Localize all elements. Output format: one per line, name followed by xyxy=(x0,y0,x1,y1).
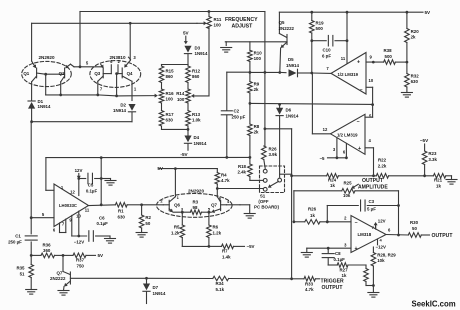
resistor R27 xyxy=(328,263,366,279)
resistor R35 xyxy=(16,255,33,289)
node trigger top junction xyxy=(264,127,292,130)
svg-text:100: 100 xyxy=(214,23,222,28)
svg-text:4: 4 xyxy=(369,138,372,143)
svg-text:R13: R13 xyxy=(192,112,201,117)
potentiometer R11 FREQUENCY ADJUST xyxy=(207,12,258,30)
potentiometer R25 xyxy=(294,181,399,198)
svg-text:+: + xyxy=(357,60,360,66)
node R9-R8 junction xyxy=(249,102,252,105)
svg-text:R12: R12 xyxy=(192,69,201,74)
svg-text:51: 51 xyxy=(20,271,25,276)
switch S1 xyxy=(254,166,284,209)
svg-text:3.3k: 3.3k xyxy=(428,157,437,162)
wire Q2 emitter down xyxy=(60,82,62,95)
transistor Q5 xyxy=(279,12,295,72)
capacitor C2 xyxy=(221,72,250,157)
resistor R26 (1k) input xyxy=(294,207,351,225)
svg-text:C5: C5 xyxy=(88,183,94,188)
svg-text:6 pF: 6 pF xyxy=(322,53,331,58)
svg-text:−12V: −12V xyxy=(74,239,84,244)
ground for U3 pin3 xyxy=(301,248,312,257)
ground for R2 xyxy=(136,233,147,238)
transistor Q2 xyxy=(46,64,71,82)
ground for C5 xyxy=(105,179,116,186)
resistor R33 xyxy=(292,277,320,293)
svg-text:OUTPUT: OUTPUT xyxy=(322,285,344,291)
svg-text:C3: C3 xyxy=(369,199,375,204)
wire R25 to pin2 node xyxy=(293,191,296,223)
svg-text:R34: R34 xyxy=(216,281,225,286)
svg-text:7: 7 xyxy=(62,221,65,226)
svg-text:R23: R23 xyxy=(428,151,437,156)
buffer U4 LH0033C xyxy=(42,184,90,233)
wire LH0033C top feedback xyxy=(46,158,54,191)
svg-text:3: 3 xyxy=(181,206,184,211)
comparator U1 1/2 LM319 xyxy=(326,53,374,95)
diode D1 xyxy=(28,82,51,122)
transistor Q7 xyxy=(50,255,147,290)
power 12V for U4 xyxy=(75,168,83,196)
svg-text:Q6: Q6 xyxy=(174,203,180,208)
svg-text:−: − xyxy=(359,88,362,94)
svg-text:98: 98 xyxy=(193,205,198,210)
svg-text:6: 6 xyxy=(219,195,222,200)
resistor R5 xyxy=(171,212,185,246)
svg-text:5: 5 xyxy=(42,212,45,217)
svg-text:7: 7 xyxy=(100,87,103,92)
label TRIGGER OUTPUT xyxy=(321,279,345,291)
resistor R2 xyxy=(139,205,151,233)
svg-text:R5: R5 xyxy=(174,225,180,230)
svg-text:630: 630 xyxy=(118,214,126,219)
capacitor C6 xyxy=(89,215,110,241)
svg-text:R36: R36 xyxy=(43,242,52,247)
diode D5 xyxy=(278,57,311,77)
potentiometer R14 xyxy=(176,83,209,111)
wire U3 output xyxy=(386,234,408,237)
resistor R4 xyxy=(215,169,230,197)
svg-text:3: 3 xyxy=(333,147,336,152)
wire emitter-wiper rail xyxy=(46,94,158,98)
svg-text:-5V: -5V xyxy=(180,152,188,157)
svg-text:1k: 1k xyxy=(436,183,441,188)
svg-text:100: 100 xyxy=(254,56,262,61)
transistor Q4 xyxy=(117,61,137,101)
svg-text:−12V: −12V xyxy=(376,245,386,250)
svg-text:4.7k: 4.7k xyxy=(221,178,230,183)
svg-text:250 µF: 250 µF xyxy=(8,240,22,245)
svg-text:R18: R18 xyxy=(238,164,247,169)
svg-text:R27: R27 xyxy=(340,267,349,272)
dual transistor 2N2920 outline xyxy=(22,55,72,87)
svg-text:Q5: Q5 xyxy=(279,20,285,25)
svg-text:LM318: LM318 xyxy=(358,232,372,237)
resistor R7 xyxy=(209,244,255,259)
power -5V for R23 xyxy=(420,138,429,143)
svg-text:2.4k: 2.4k xyxy=(237,170,246,175)
resistor R32 xyxy=(405,62,420,92)
svg-text:R24: R24 xyxy=(328,177,337,182)
wire U4 pin 9 10 to -12V xyxy=(72,211,87,244)
wire feedback vertical x101 xyxy=(100,158,102,205)
wire long rail y157 xyxy=(46,156,250,159)
svg-text:C6: C6 xyxy=(99,215,105,220)
svg-text:+: + xyxy=(354,246,357,252)
svg-text:1: 1 xyxy=(134,87,137,92)
resistor R13 xyxy=(186,111,201,127)
node R19-C10 junction xyxy=(310,39,313,42)
svg-text:D7: D7 xyxy=(153,285,159,290)
wire U4 output xyxy=(89,203,116,206)
svg-text:1N914: 1N914 xyxy=(286,63,299,68)
svg-text:1.4k: 1.4k xyxy=(222,254,231,259)
wire vertical from top rail to Q2/Q3 rail xyxy=(79,12,81,67)
resistor R30 xyxy=(408,220,429,237)
wire Q2 collector to Q3 rail xyxy=(71,60,101,68)
svg-text:1k: 1k xyxy=(310,213,315,218)
wire U1 pin9 to R38 xyxy=(366,61,384,64)
ground for R28 R29 xyxy=(368,286,379,298)
svg-text:1/2 LM319: 1/2 LM319 xyxy=(338,72,359,77)
svg-text:S1: S1 xyxy=(260,194,266,199)
svg-text:1N914: 1N914 xyxy=(286,113,299,118)
svg-text:R7: R7 xyxy=(222,249,228,254)
svg-text:860: 860 xyxy=(166,74,174,79)
svg-text:2k: 2k xyxy=(411,34,416,39)
svg-text:1: 1 xyxy=(177,195,180,200)
wire top rail right (5V) xyxy=(279,10,431,15)
svg-text:1.2k: 1.2k xyxy=(213,230,222,235)
diode D4 xyxy=(184,129,207,150)
svg-text:12V: 12V xyxy=(378,218,386,223)
wire comparator U1 pin 11 from 5V xyxy=(346,12,348,63)
svg-text:6: 6 xyxy=(388,228,391,233)
diode D6 xyxy=(276,103,299,177)
power 5V line for Q6 xyxy=(157,166,217,171)
svg-text:C1: C1 xyxy=(15,233,21,238)
resistor R36 xyxy=(31,242,64,257)
svg-text:2k: 2k xyxy=(254,129,259,134)
svg-text:D1: D1 xyxy=(38,99,44,104)
power 12V pin7 U3 xyxy=(372,218,386,229)
svg-text:R3: R3 xyxy=(193,199,199,204)
svg-text:R38: R38 xyxy=(384,48,393,53)
transistor Q3 xyxy=(94,65,111,95)
svg-text:R17: R17 xyxy=(166,112,175,117)
node Q1-Q2 base junction xyxy=(44,73,47,95)
svg-text:7: 7 xyxy=(326,66,329,71)
svg-text:360: 360 xyxy=(43,248,51,253)
resistor R3 xyxy=(173,199,211,214)
node R10-R9 junction xyxy=(249,71,252,74)
svg-text:R2: R2 xyxy=(145,215,151,220)
power 5V for D3 xyxy=(183,31,190,45)
svg-text:R37: R37 xyxy=(76,258,85,263)
svg-text:5: 5 xyxy=(86,60,89,65)
svg-text:R1: R1 xyxy=(118,209,124,214)
resistor R1 xyxy=(115,203,143,220)
resistor R10 xyxy=(248,50,263,72)
wire R19 node down to U1 output line xyxy=(310,41,313,75)
svg-text:1N914: 1N914 xyxy=(194,141,207,146)
ground for C6 xyxy=(105,236,116,243)
svg-text:Q1: Q1 xyxy=(23,71,29,76)
svg-text:11: 11 xyxy=(85,207,90,212)
svg-text:11: 11 xyxy=(341,56,346,61)
svg-text:−5: −5 xyxy=(319,156,325,161)
wire pair right base to ground xyxy=(240,205,250,214)
svg-text:R4: R4 xyxy=(221,172,227,177)
resistor R28 xyxy=(364,265,374,286)
svg-text:250 µF: 250 µF xyxy=(232,115,246,120)
wire left vertical rail xyxy=(30,122,33,257)
svg-text:3: 3 xyxy=(344,242,347,247)
svg-text:R32: R32 xyxy=(411,74,420,79)
power -12V pin4 U3 xyxy=(376,238,386,250)
wire vertical net x=265 xyxy=(264,12,266,129)
svg-text:2: 2 xyxy=(344,216,347,221)
power -5V under D4 xyxy=(180,152,188,157)
svg-text:FREQUENCY: FREQUENCY xyxy=(225,17,258,23)
diode D2 xyxy=(113,103,136,122)
svg-text:1/2 LM319: 1/2 LM319 xyxy=(337,132,358,137)
svg-text:R21: R21 xyxy=(434,178,443,183)
svg-text:1k: 1k xyxy=(330,183,335,188)
svg-text:Q3: Q3 xyxy=(94,71,100,76)
svg-text:2k: 2k xyxy=(254,87,259,92)
wire U4 input pin5 xyxy=(30,216,54,219)
svg-text:1N914: 1N914 xyxy=(38,104,51,109)
label OUTPUT AMPLITUDE xyxy=(358,178,388,191)
svg-text:PC BOARD): PC BOARD) xyxy=(254,204,279,209)
wire bottom rail xyxy=(145,277,213,280)
svg-text:6: 6 xyxy=(53,228,56,233)
svg-text:3.9k: 3.9k xyxy=(269,152,278,157)
svg-text:10k: 10k xyxy=(343,193,351,198)
ground for R10/C2 xyxy=(221,42,232,52)
comparator U2 1/2 LM319 xyxy=(323,113,372,154)
svg-text:50: 50 xyxy=(412,226,417,231)
svg-text:D5: D5 xyxy=(288,57,294,62)
svg-text:(OFF: (OFF xyxy=(258,199,269,204)
svg-text:−5V: −5V xyxy=(420,138,429,143)
diode D3 xyxy=(184,45,208,64)
resistor R18 xyxy=(237,156,263,180)
svg-text:1N914: 1N914 xyxy=(113,108,126,113)
op-amp U3 LM318 xyxy=(344,216,391,253)
wire trigger vertical xyxy=(291,129,293,279)
svg-text:4: 4 xyxy=(227,199,230,204)
wire U2 pins 3 6 to -5 xyxy=(319,138,347,161)
svg-text:1.0k: 1.0k xyxy=(192,118,201,123)
svg-text:630: 630 xyxy=(411,79,419,84)
resistor R23 xyxy=(422,144,437,176)
svg-text:D6: D6 xyxy=(286,108,292,113)
resistor R21 xyxy=(433,174,451,189)
wire U2 output to net x312 xyxy=(312,73,330,134)
svg-text:Q7: Q7 xyxy=(211,203,217,208)
svg-text:5V: 5V xyxy=(425,10,432,15)
svg-text:R33: R33 xyxy=(305,281,314,286)
svg-text:−5V: −5V xyxy=(247,244,255,249)
svg-text:−: − xyxy=(354,220,357,226)
wire U3 pin3 line xyxy=(307,247,351,250)
svg-text:860: 860 xyxy=(192,74,200,79)
resistor R19 xyxy=(310,12,325,41)
wire bottom tie Q1-D2 rail xyxy=(30,120,132,123)
svg-text:0.1µF: 0.1µF xyxy=(86,188,98,193)
svg-text:AMPLITUDE: AMPLITUDE xyxy=(358,184,388,190)
svg-text:ADJUST: ADJUST xyxy=(232,24,254,30)
svg-text:R19: R19 xyxy=(316,21,325,26)
svg-text:12V: 12V xyxy=(75,168,83,173)
wire ladder bottom tie xyxy=(162,126,190,131)
svg-text:R30: R30 xyxy=(410,220,419,225)
wire Q4 top lead vertical xyxy=(129,23,131,60)
resistor R29 xyxy=(371,247,396,287)
svg-text:LH0033C: LH0033C xyxy=(59,203,77,208)
node rail junction x372 xyxy=(371,103,374,106)
svg-text:Q4: Q4 xyxy=(127,71,133,76)
svg-text:750: 750 xyxy=(77,263,85,268)
svg-text:1N914: 1N914 xyxy=(195,51,208,56)
svg-text:1N914: 1N914 xyxy=(153,291,166,296)
svg-text:5 µF: 5 µF xyxy=(367,207,376,212)
svg-text:1k: 1k xyxy=(342,273,347,278)
svg-text:7: 7 xyxy=(372,225,375,230)
svg-text:C8: C8 xyxy=(335,251,341,256)
svg-text:R35: R35 xyxy=(16,266,25,271)
resistor R17 xyxy=(159,111,174,127)
svg-text:R8: R8 xyxy=(254,124,260,129)
ground for pair base xyxy=(244,214,255,219)
svg-text:6: 6 xyxy=(343,150,346,155)
wire Q1/Q4 collector rail to R11 wiper xyxy=(32,21,207,61)
diode D7 xyxy=(143,278,166,303)
svg-text:50: 50 xyxy=(145,221,150,226)
ground for R21 xyxy=(446,176,457,184)
capacitor C5 xyxy=(79,173,111,193)
transistor Q6 (pair) xyxy=(160,169,184,213)
svg-text:R20: R20 xyxy=(411,29,420,34)
wire ladder top tie xyxy=(162,65,189,67)
wire U1 pin10 to rail xyxy=(366,87,373,104)
svg-text:4: 4 xyxy=(380,238,383,243)
ground for R35 xyxy=(26,290,37,295)
svg-text:12: 12 xyxy=(323,127,328,132)
resistor R15 xyxy=(159,66,174,83)
resistor R20 xyxy=(405,12,420,62)
transistor Q8 (pair) xyxy=(208,195,240,213)
capacitor C1 xyxy=(8,233,37,244)
resistor R8 xyxy=(248,103,260,157)
svg-text:R14: R14 xyxy=(176,91,185,96)
svg-text:2N2222: 2N2222 xyxy=(279,26,295,31)
svg-text:2N2920: 2N2920 xyxy=(38,55,55,60)
capacitor C10 xyxy=(312,35,349,58)
svg-text:Q2: Q2 xyxy=(59,71,65,76)
wire Q8 collector to S1 xyxy=(217,188,263,190)
wire Q5 base xyxy=(225,41,287,43)
svg-text:12: 12 xyxy=(70,190,75,195)
resistor R9 xyxy=(248,72,260,103)
resistor R38 xyxy=(384,48,409,64)
wire U to R10 xyxy=(249,42,251,50)
svg-text:3: 3 xyxy=(133,55,136,60)
wire R5-R6 tie xyxy=(182,245,209,247)
wire U2 pin4 xyxy=(365,148,374,176)
resistor R26 (3.9k) xyxy=(262,129,278,169)
svg-text:R25: R25 xyxy=(344,181,353,186)
svg-text:R16: R16 xyxy=(166,91,175,96)
wire hysteresis line y175.8 xyxy=(290,174,326,177)
svg-text:500: 500 xyxy=(316,26,324,31)
svg-text:R10: R10 xyxy=(254,51,263,56)
svg-text:0.1µF: 0.1µF xyxy=(334,257,346,262)
svg-text:5.1k: 5.1k xyxy=(216,287,225,292)
wire top rail (Q3 bases / R11 / vertical net) xyxy=(80,10,265,13)
dual transistor 2N3810 outline xyxy=(90,55,141,87)
resistor R22 xyxy=(376,158,433,179)
svg-text:R11: R11 xyxy=(214,17,222,22)
svg-text:100: 100 xyxy=(166,97,174,102)
svg-text:R26: R26 xyxy=(269,146,278,151)
wire U2 pin5 xyxy=(365,105,373,118)
ground for R32 xyxy=(401,93,412,98)
svg-text:OUTPUT: OUTPUT xyxy=(432,233,454,239)
ground for Q7 xyxy=(58,291,69,296)
resistor R37 xyxy=(63,253,104,268)
svg-text:D2: D2 xyxy=(120,103,126,108)
resistor R24 xyxy=(327,174,377,189)
svg-text:C10: C10 xyxy=(322,48,331,53)
svg-text:SeekIC.com: SeekIC.com xyxy=(412,300,456,309)
potentiometer R16 xyxy=(159,83,174,111)
svg-text:4.7k: 4.7k xyxy=(305,287,314,292)
watermark SeekIC.com xyxy=(412,300,456,309)
resistor R6 xyxy=(207,212,222,248)
wire U1 output line xyxy=(312,72,331,74)
wire mid rail y104 xyxy=(250,103,373,104)
svg-text:5V: 5V xyxy=(98,253,105,258)
svg-text:2.2k: 2.2k xyxy=(378,163,387,168)
svg-text:1.2k: 1.2k xyxy=(171,230,180,235)
node Q3-Q4 base junction xyxy=(110,59,121,96)
svg-text:R9: R9 xyxy=(254,81,260,86)
svg-text:D3: D3 xyxy=(195,45,201,50)
svg-text:R28, R29: R28, R29 xyxy=(377,252,396,257)
wire U4 pins 6-7 jumper xyxy=(60,219,66,232)
svg-text:2N2920: 2N2920 xyxy=(188,188,205,193)
svg-text:R15: R15 xyxy=(166,69,175,74)
dual transistor 2N2920 (lower) outline xyxy=(157,188,233,217)
svg-text:5V: 5V xyxy=(183,31,190,36)
capacitor C3 xyxy=(326,199,400,223)
svg-text:−: − xyxy=(356,119,359,125)
svg-text:+: + xyxy=(358,146,361,152)
svg-text:10k: 10k xyxy=(377,258,385,263)
svg-text:630: 630 xyxy=(166,118,174,123)
svg-text:D4: D4 xyxy=(194,135,200,140)
svg-text:R6: R6 xyxy=(213,225,219,230)
label OUTPUT right xyxy=(432,233,454,239)
wire R14 wiper to R11 xyxy=(208,28,210,96)
svg-text:10: 10 xyxy=(369,78,374,83)
svg-text:2N2222: 2N2222 xyxy=(50,276,66,281)
svg-text:R22: R22 xyxy=(378,158,387,163)
svg-text:OUTPUT: OUTPUT xyxy=(362,178,384,184)
wire R2 node to Q6 base xyxy=(142,204,164,206)
